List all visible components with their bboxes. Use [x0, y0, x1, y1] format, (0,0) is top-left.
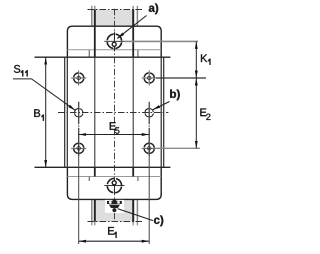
body top edge	[35, 56, 171, 58]
label S11 with leader	[14, 65, 28, 76]
body left edge double line	[64, 57, 66, 167]
rail bottom section fill	[96, 199, 133, 221]
top end cap seam line	[67, 49, 161, 51]
vertical centerline	[114, 9, 116, 222]
seal stubs top cap	[88, 50, 90, 57]
hole column centerline right	[148, 102, 150, 156]
bottom hole row extension line right	[156, 147, 200, 149]
mounting hole top-left	[71, 71, 86, 86]
E1 extension line right	[148, 156, 150, 245]
bottom end cap outline	[67, 167, 161, 199]
body right edge double line	[160, 57, 162, 167]
E2 dimension line	[195, 78, 197, 148]
E1 extension line left	[78, 156, 80, 245]
label E1	[108, 227, 116, 238]
label b) with leader	[170, 89, 180, 100]
body bottom edge	[35, 166, 171, 168]
rail top right base edge (gray)	[136, 9, 138, 26]
rail edges through top cap	[94, 26, 96, 57]
hole column centerline left	[78, 102, 80, 156]
rail top break chain line	[88, 9, 144, 11]
rail bottom left base edge (gray)	[91, 199, 93, 221]
white halo behind grease nipple	[105, 200, 124, 213]
bottom cap lube port circle	[104, 178, 124, 193]
rail bottom break stubs	[92, 222, 138, 226]
lube hole S11 left (thin)	[75, 109, 83, 117]
label B1	[34, 109, 44, 120]
rail bottom left edge (black)	[94, 199, 96, 221]
S11 leader	[13, 79, 75, 110]
label K1	[201, 54, 210, 64]
mounting hole bottom-right	[142, 141, 157, 156]
carriage body fill	[64, 57, 164, 167]
rail bottom break chain line	[88, 221, 144, 223]
rail bottom right edge (black)	[132, 199, 134, 221]
top cap lube port circle	[104, 32, 124, 52]
K1 dimension line	[195, 41, 197, 78]
E5 dimension line	[79, 134, 150, 136]
label c) with leader	[154, 215, 163, 226]
top end cap outline	[67, 26, 161, 57]
rail top left base edge (gray)	[91, 9, 93, 26]
b leader	[153, 102, 170, 110]
label E5	[110, 122, 120, 133]
c leader	[118, 209, 154, 221]
hole row extension line right	[156, 77, 206, 79]
label a) with leader	[149, 3, 158, 14]
rail top section fill	[96, 10, 133, 27]
B1 dimension line	[45, 57, 47, 167]
a leader	[117, 16, 146, 39]
E1 dimension line	[79, 240, 150, 242]
K1 extension line (lube port)	[125, 40, 199, 42]
mounting hole bottom-left	[71, 141, 86, 156]
bottom end cap seam line	[67, 176, 161, 178]
label E2	[200, 109, 210, 120]
mounting hole top-right	[142, 71, 157, 86]
rail edges through body	[94, 57, 96, 167]
rail top left edge (black)	[94, 9, 96, 26]
grease nipple c	[107, 199, 122, 212]
rail top break stubs	[92, 6, 138, 10]
seal stubs bottom cap	[88, 177, 90, 182]
rail top right edge (black)	[132, 9, 134, 26]
horizontal centerline	[58, 112, 168, 114]
lube hole right b (thin)	[145, 109, 153, 117]
rail edges through bottom cap	[94, 167, 96, 176]
rail bottom right base edge (gray)	[136, 199, 138, 221]
